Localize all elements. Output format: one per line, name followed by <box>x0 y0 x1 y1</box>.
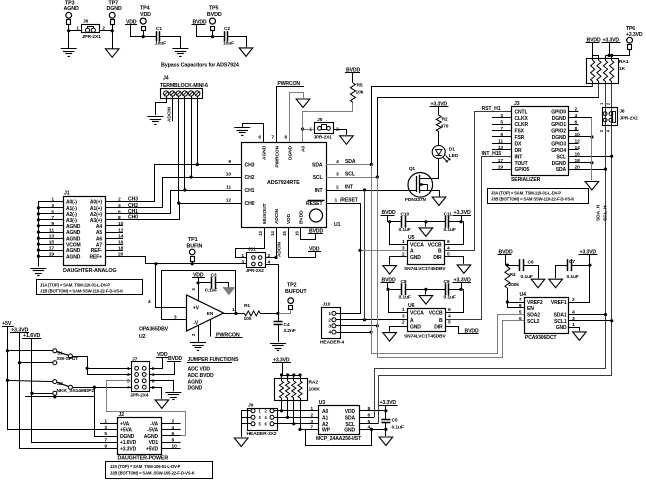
svg-text:1: 1 <box>309 127 312 133</box>
svg-text:S1: S1 <box>57 351 63 357</box>
svg-text:VCCA: VCCA <box>410 243 424 249</box>
svg-text:DIR: DIR <box>433 255 442 261</box>
svg-text:JPR-2X2: JPR-2X2 <box>619 115 638 120</box>
svg-text:SDA: SDA <box>556 167 567 173</box>
svg-text:18: 18 <box>118 246 124 252</box>
svg-text:AGND: AGND <box>64 6 80 12</box>
svg-text:SDA: SDA <box>345 415 356 421</box>
svg-text:CH1: CH1 <box>245 188 255 194</box>
svg-text:JPR-2X1: JPR-2X1 <box>82 34 101 40</box>
svg-text:1: 1 <box>76 25 79 31</box>
svg-text:J2: J2 <box>119 412 125 418</box>
svg-text:B: B <box>439 318 443 324</box>
svg-text:WP: WP <box>322 428 331 434</box>
svg-text:16: 16 <box>118 240 124 246</box>
svg-text:J3B (BOTTOM) = SAM SSW-110-22-: J3B (BOTTOM) = SAM SSW-110-22-F-D-VS-K <box>491 196 574 201</box>
svg-text:U1: U1 <box>334 222 341 228</box>
svg-text:CH2: CH2 <box>245 175 255 181</box>
svg-text:+5VD: +5VD <box>146 446 159 452</box>
svg-text:11: 11 <box>226 184 231 190</box>
svg-text:0.1uF: 0.1uF <box>399 227 411 233</box>
svg-text:REF+: REF+ <box>90 254 103 260</box>
svg-text:A: A <box>410 249 414 255</box>
svg-text:GND: GND <box>410 325 421 331</box>
svg-text:JPR-2X1: JPR-2X1 <box>314 134 333 139</box>
svg-text:DGND: DGND <box>552 116 567 122</box>
svg-text:5: 5 <box>448 320 451 326</box>
svg-text:PWRCON: PWRCON <box>277 81 300 87</box>
svg-text:9: 9 <box>104 444 107 450</box>
svg-text:AGND: AGND <box>66 224 81 230</box>
svg-text:SCL_H: SCL_H <box>603 205 609 221</box>
svg-text:10: 10 <box>118 221 124 227</box>
svg-text:5: 5 <box>104 431 107 437</box>
svg-text:A4: A4 <box>96 224 103 230</box>
svg-text:100: 100 <box>244 316 252 322</box>
svg-text:AGND: AGND <box>188 379 203 385</box>
svg-text:INT_H15: INT_H15 <box>482 151 502 157</box>
svg-text:VDD: VDD <box>140 12 151 18</box>
svg-text:TP5: TP5 <box>209 6 219 12</box>
svg-text:0.1uF: 0.1uF <box>444 295 456 301</box>
svg-text:DAUGHTER-POWER: DAUGHTER-POWER <box>118 455 169 461</box>
svg-text:0.1uF: 0.1uF <box>205 288 217 294</box>
svg-text:4: 4 <box>448 314 451 320</box>
svg-text:10: 10 <box>575 132 581 138</box>
svg-text:CLKR: CLKR <box>515 122 529 128</box>
svg-text:REF-: REF- <box>91 248 103 254</box>
svg-text:S2: S2 <box>57 381 63 387</box>
svg-text:A3(-): A3(-) <box>66 218 77 224</box>
svg-text:DGND: DGND <box>288 145 294 160</box>
svg-text:DGND: DGND <box>188 386 203 392</box>
svg-text:3: 3 <box>51 203 54 209</box>
svg-text:DIR: DIR <box>434 325 443 331</box>
svg-text:6: 6 <box>448 307 451 313</box>
svg-text:FSX: FSX <box>515 129 525 135</box>
svg-text:DR: DR <box>515 148 523 154</box>
svg-text:DGND: DGND <box>120 434 135 440</box>
svg-text:4: 4 <box>336 159 339 165</box>
svg-text:CNTL: CNTL <box>515 109 528 115</box>
svg-text:CLKX: CLKX <box>515 116 529 122</box>
svg-text:7: 7 <box>104 437 107 443</box>
svg-text:VDD: VDD <box>345 409 356 415</box>
svg-text:2: 2 <box>328 317 331 323</box>
svg-text:HEADER-4: HEADER-4 <box>320 340 345 346</box>
svg-text:SDA_H: SDA_H <box>596 204 602 221</box>
svg-text:4: 4 <box>148 299 151 305</box>
svg-text:CH0: CH0 <box>245 201 255 207</box>
svg-text:J2B (BOTTOM) = SAM_SSW-105-22-: J2B (BOTTOM) = SAM_SSW-105-22-F-D-VS-K <box>110 471 195 476</box>
svg-text:MCP_24AA256-I/ST: MCP_24AA256-I/ST <box>316 436 362 442</box>
svg-text:AGND: AGND <box>262 145 268 160</box>
svg-text:A1(+): A1(+) <box>90 206 103 212</box>
svg-text:19: 19 <box>498 164 504 170</box>
svg-text:INT: INT <box>345 185 354 191</box>
svg-text:VCCB: VCCB <box>428 243 442 249</box>
svg-text:2.2nF: 2.2nF <box>284 328 296 334</box>
svg-text:8: 8 <box>368 406 371 412</box>
svg-text:DGND: DGND <box>107 6 123 12</box>
svg-text:2: 2 <box>118 197 121 203</box>
svg-text:DAUGHTER-ANALOG: DAUGHTER-ANALOG <box>63 268 116 274</box>
svg-text:0.1uF: 0.1uF <box>444 227 456 233</box>
svg-text:A1: A1 <box>322 415 329 421</box>
svg-text:12: 12 <box>226 197 232 203</box>
svg-text:FDN337N: FDN337N <box>405 197 427 203</box>
svg-text:C3: C3 <box>211 273 217 279</box>
svg-text:3: 3 <box>402 314 405 320</box>
svg-text:16: 16 <box>295 231 300 236</box>
svg-text:10uF: 10uF <box>155 41 166 47</box>
svg-text:JPR-2X4: JPR-2X4 <box>130 393 149 398</box>
svg-text:ADCIN: ADCIN <box>274 208 280 224</box>
svg-text:-VA: -VA <box>150 421 158 427</box>
svg-text:11: 11 <box>498 139 503 145</box>
svg-text:CH0: CH0 <box>128 215 138 221</box>
svg-text:SCL2: SCL2 <box>527 319 540 325</box>
svg-text:SDA: SDA <box>312 163 323 169</box>
svg-text:VDD: VDD <box>286 213 292 224</box>
svg-text:JPR-2X2: JPR-2X2 <box>246 268 265 273</box>
svg-text:BUFIN: BUFIN <box>187 243 203 249</box>
svg-text:FSR: FSR <box>515 135 525 141</box>
svg-text:17: 17 <box>498 158 504 164</box>
svg-text:+3.3VD: +3.3VD <box>120 446 137 452</box>
svg-text:INT: INT <box>515 154 524 160</box>
svg-text:EN: EN <box>527 306 534 312</box>
svg-text:1: 1 <box>402 239 405 245</box>
svg-text:7: 7 <box>519 297 522 303</box>
svg-text:AGND: AGND <box>66 230 81 236</box>
svg-text:SDA1: SDA1 <box>554 313 567 319</box>
svg-text:DGND: DGND <box>552 135 567 141</box>
svg-text:PCA9306DCT: PCA9306DCT <box>525 335 558 341</box>
svg-text:Q1: Q1 <box>409 166 416 172</box>
svg-text:J2A (TOP) = SAM_TSM-105-01-L-D: J2A (TOP) = SAM_TSM-105-01-L-DV-P <box>110 464 181 469</box>
svg-text:C1: C1 <box>156 26 162 32</box>
svg-text:C2: C2 <box>224 26 230 32</box>
svg-text:9: 9 <box>228 159 231 165</box>
svg-text:VREF1: VREF1 <box>551 300 567 306</box>
svg-text:SN74LVC1T45DBV: SN74LVC1T45DBV <box>404 266 446 272</box>
svg-text:4: 4 <box>152 372 155 378</box>
svg-text:PWRCON: PWRCON <box>275 145 281 167</box>
svg-text:10uF: 10uF <box>223 41 234 47</box>
svg-text:3: 3 <box>127 372 130 378</box>
svg-text:+1.6VD: +1.6VD <box>120 440 137 446</box>
svg-text:R4: R4 <box>510 272 516 278</box>
svg-text:GND: GND <box>344 428 355 434</box>
svg-text:TOUT: TOUT <box>515 161 529 167</box>
svg-text:A3(+): A3(+) <box>90 218 103 224</box>
svg-text:C6: C6 <box>528 260 534 266</box>
svg-text:J8: J8 <box>619 109 624 114</box>
svg-text:+V: +V <box>193 305 200 311</box>
svg-text:3: 3 <box>174 314 177 320</box>
svg-text:R2: R2 <box>442 117 448 123</box>
svg-text:6: 6 <box>447 239 450 245</box>
svg-text:ADCIN: ADCIN <box>277 241 283 257</box>
svg-text:5: 5 <box>51 209 54 215</box>
svg-text:C4: C4 <box>284 322 290 328</box>
svg-text:U3: U3 <box>319 400 326 406</box>
svg-text:4: 4 <box>118 203 121 209</box>
svg-text:ADCIN: ADCIN <box>166 106 172 122</box>
svg-text:C5: C5 <box>392 418 398 424</box>
svg-text:A0(+): A0(+) <box>90 199 103 205</box>
svg-text:1: 1 <box>232 307 235 313</box>
svg-text:9: 9 <box>51 221 54 227</box>
svg-text:U2: U2 <box>139 334 146 340</box>
svg-text:10: 10 <box>226 171 232 177</box>
svg-text:5: 5 <box>519 310 522 316</box>
svg-text:14: 14 <box>575 145 581 151</box>
svg-text:TERMBLOCK-MINI-6: TERMBLOCK-MINI-6 <box>160 83 208 89</box>
svg-text:VCCA: VCCA <box>410 311 424 317</box>
svg-text:2: 2 <box>572 297 575 303</box>
svg-text:13: 13 <box>258 231 263 236</box>
svg-text:-V: -V <box>193 320 199 326</box>
svg-text:8: 8 <box>284 135 287 141</box>
svg-text:4: 4 <box>328 330 331 336</box>
svg-text:2: 2 <box>102 25 105 31</box>
svg-text:J6: J6 <box>83 18 89 24</box>
svg-text:3: 3 <box>310 419 313 425</box>
svg-text:RA2: RA2 <box>309 380 319 386</box>
svg-text:BVDD: BVDD <box>299 210 305 224</box>
svg-text:AGND: AGND <box>144 434 159 440</box>
svg-text:SERIALIZER: SERIALIZER <box>511 177 541 183</box>
svg-text:RST_H1: RST_H1 <box>482 106 501 112</box>
svg-text:15: 15 <box>282 231 287 236</box>
svg-text:6: 6 <box>519 316 522 322</box>
svg-text:SCL1: SCL1 <box>554 319 567 325</box>
svg-text:LED: LED <box>449 153 459 159</box>
svg-text:1: 1 <box>328 311 331 317</box>
svg-text:GPIO0: GPIO0 <box>551 109 566 115</box>
svg-text:1: 1 <box>127 366 130 372</box>
svg-text:10k: 10k <box>356 90 364 96</box>
svg-text:B: B <box>438 249 442 255</box>
svg-text:3: 3 <box>104 425 107 431</box>
svg-text:AGND: AGND <box>66 254 81 260</box>
svg-text:RESET: RESET <box>306 201 323 207</box>
svg-text:-5VA: -5VA <box>147 428 158 434</box>
svg-text:J1B (BOTTOM) = SAM SSW-110-22-: J1B (BOTTOM) = SAM SSW-110-22-F-D-VS-K <box>40 288 123 293</box>
svg-text:DGND: DGND <box>552 161 567 167</box>
svg-text:2: 2 <box>310 413 313 419</box>
svg-text:OPA365DBV: OPA365DBV <box>139 327 169 333</box>
svg-text:AGND: AGND <box>66 248 81 254</box>
svg-text:100K: 100K <box>309 387 321 393</box>
svg-text:BVDD: BVDD <box>382 210 396 216</box>
svg-text:+5VA: +5VA <box>120 428 132 434</box>
svg-text:A: A <box>410 318 414 324</box>
svg-text:7: 7 <box>271 135 274 141</box>
svg-text:ADS7924RTE: ADS7924RTE <box>267 180 300 186</box>
svg-text:3: 3 <box>500 113 503 119</box>
svg-text:20: 20 <box>118 252 124 258</box>
svg-text:NKK_SS14MDP2: NKK_SS14MDP2 <box>57 388 95 394</box>
svg-text:C8: C8 <box>401 279 407 285</box>
svg-text:J3A (TOP) = SAM_TSM-110-01-L-D: J3A (TOP) = SAM_TSM-110-01-L-DV-P <box>491 190 561 195</box>
svg-text:1: 1 <box>402 307 405 313</box>
svg-text:3: 3 <box>328 323 331 329</box>
svg-text:GPIO2: GPIO2 <box>551 129 566 135</box>
svg-text:1: 1 <box>310 406 313 412</box>
svg-text:3: 3 <box>241 259 244 265</box>
svg-text:7: 7 <box>500 126 503 132</box>
svg-text:6: 6 <box>258 135 261 141</box>
svg-text:6: 6 <box>152 378 155 384</box>
svg-text:12: 12 <box>118 228 124 234</box>
svg-text:A1(-): A1(-) <box>66 206 77 212</box>
svg-text:3: 3 <box>336 172 339 178</box>
svg-text:200k: 200k <box>509 282 520 288</box>
svg-text:J1A (TOP) = SAM_TSM-110-01-L-D: J1A (TOP) = SAM_TSM-110-01-L-DV-P <box>40 282 110 287</box>
svg-text:SCL: SCL <box>345 172 355 178</box>
svg-text:8: 8 <box>118 215 121 221</box>
svg-text:7: 7 <box>51 215 54 221</box>
svg-text:GPIO1: GPIO1 <box>551 122 566 128</box>
svg-text:ADC VDD: ADC VDD <box>188 367 211 373</box>
svg-text:/RESET: /RESET <box>340 198 359 204</box>
svg-text:J1: J1 <box>64 191 70 197</box>
svg-text:1: 1 <box>241 253 244 259</box>
svg-text:2: 2 <box>268 253 271 259</box>
svg-text:INT: INT <box>315 188 324 194</box>
svg-text:EN: EN <box>207 311 214 316</box>
svg-text:J10: J10 <box>322 302 330 308</box>
svg-text:TP1: TP1 <box>188 237 198 243</box>
svg-text:A0(-): A0(-) <box>66 199 77 205</box>
svg-text:2: 2 <box>336 185 339 191</box>
svg-text:SCL: SCL <box>556 154 566 160</box>
svg-text:GPIO4: GPIO4 <box>551 148 566 154</box>
svg-text:7: 7 <box>127 385 130 391</box>
svg-text:C9: C9 <box>444 279 450 285</box>
svg-text:ADC BVDD: ADC BVDD <box>188 373 215 379</box>
svg-text:C10: C10 <box>401 211 410 217</box>
svg-text:J3: J3 <box>514 101 520 107</box>
svg-text:SDA2: SDA2 <box>527 313 540 319</box>
svg-text:470: 470 <box>441 124 449 130</box>
svg-text:HEADER-3X2: HEADER-3X2 <box>247 431 277 437</box>
svg-text:+VA: +VA <box>120 421 130 427</box>
svg-text:6: 6 <box>172 431 175 437</box>
svg-text:MUXOUT: MUXOUT <box>262 203 268 224</box>
svg-text:DX: DX <box>515 142 523 148</box>
svg-text:SN74LVC1T45DBV: SN74LVC1T45DBV <box>404 333 446 339</box>
svg-text:D1: D1 <box>449 147 455 153</box>
svg-text:VCCB: VCCB <box>429 311 443 317</box>
svg-text:1K: 1K <box>619 66 626 72</box>
svg-text:0.1uF: 0.1uF <box>399 295 411 301</box>
svg-text:A0: A0 <box>301 146 307 152</box>
svg-text:A5: A5 <box>96 230 103 236</box>
svg-text:TP2: TP2 <box>287 283 297 289</box>
svg-text:9: 9 <box>500 132 503 138</box>
svg-text:BVDD: BVDD <box>168 356 182 362</box>
svg-text:C11: C11 <box>444 211 453 217</box>
svg-text:1: 1 <box>335 198 338 204</box>
svg-text:A0: A0 <box>322 409 329 415</box>
svg-text:GND: GND <box>410 255 421 261</box>
svg-text:R5: R5 <box>357 83 363 89</box>
svg-text:0.1uF: 0.1uF <box>567 274 579 280</box>
svg-text:U6: U6 <box>408 303 415 309</box>
svg-text:SDA: SDA <box>345 159 356 165</box>
svg-text:SW-SPDT: SW-SPDT <box>57 356 79 362</box>
svg-text:RA1: RA1 <box>619 59 629 65</box>
svg-text:14: 14 <box>270 231 275 236</box>
svg-text:J11: J11 <box>248 247 256 253</box>
svg-text:J7: J7 <box>132 356 138 362</box>
svg-text:BVDD: BVDD <box>207 12 222 18</box>
svg-text:U4: U4 <box>520 292 527 298</box>
svg-text:SCL: SCL <box>313 175 323 181</box>
svg-text:2: 2 <box>402 320 405 326</box>
svg-text:R1: R1 <box>244 303 250 309</box>
svg-text:BUFOUT: BUFOUT <box>285 289 307 295</box>
svg-text:5: 5 <box>368 419 371 425</box>
svg-text:14: 14 <box>118 234 124 240</box>
svg-text:CH2: CH2 <box>128 203 138 209</box>
svg-text:GPIO3: GPIO3 <box>551 142 566 148</box>
svg-text:GND: GND <box>556 325 567 331</box>
svg-text:J5: J5 <box>317 117 323 123</box>
svg-text:8: 8 <box>519 303 522 309</box>
svg-text:Bypass Capacitors for ADS7924: Bypass Capacitors for ADS7924 <box>161 63 239 69</box>
svg-text:6: 6 <box>118 209 121 215</box>
svg-text:VD1: VD1 <box>149 440 159 446</box>
svg-text:U5: U5 <box>408 235 415 241</box>
svg-text:J9: J9 <box>248 403 254 409</box>
svg-text:GPIO5: GPIO5 <box>515 167 530 173</box>
svg-text:5: 5 <box>500 119 503 125</box>
svg-text:CH3: CH3 <box>128 196 138 202</box>
svg-text:J4: J4 <box>163 76 169 82</box>
svg-text:C7: C7 <box>569 259 575 265</box>
svg-text:0.1uF: 0.1uF <box>392 425 404 431</box>
svg-text:5: 5 <box>127 378 130 384</box>
svg-text:TP4: TP4 <box>140 6 150 12</box>
svg-text:CH3: CH3 <box>245 163 255 169</box>
